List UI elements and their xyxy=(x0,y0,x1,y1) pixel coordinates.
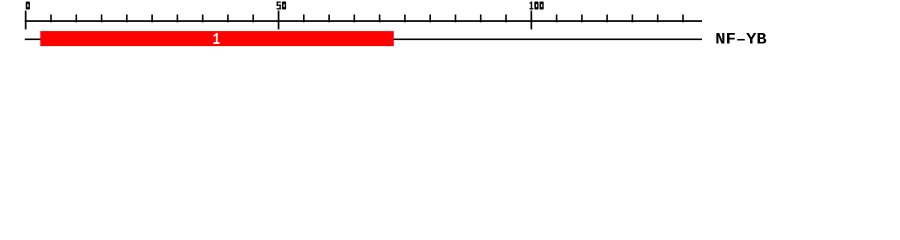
ruler major tick 100 xyxy=(531,11,533,30)
svg-text:1: 1 xyxy=(213,30,221,49)
ruler label 100 xyxy=(529,2,543,10)
svg-text:NF–YB: NF–YB xyxy=(715,30,767,48)
ruler minor ticks xyxy=(50,15,684,23)
protein backbone line xyxy=(25,39,702,41)
ruler axis line xyxy=(25,20,702,22)
ruler label 0 xyxy=(26,2,30,10)
ruler major tick 0 xyxy=(25,11,27,30)
ruler major tick 50 xyxy=(278,11,280,30)
ruler label 50 xyxy=(277,2,287,10)
domain bar 1 (red) xyxy=(40,31,394,46)
